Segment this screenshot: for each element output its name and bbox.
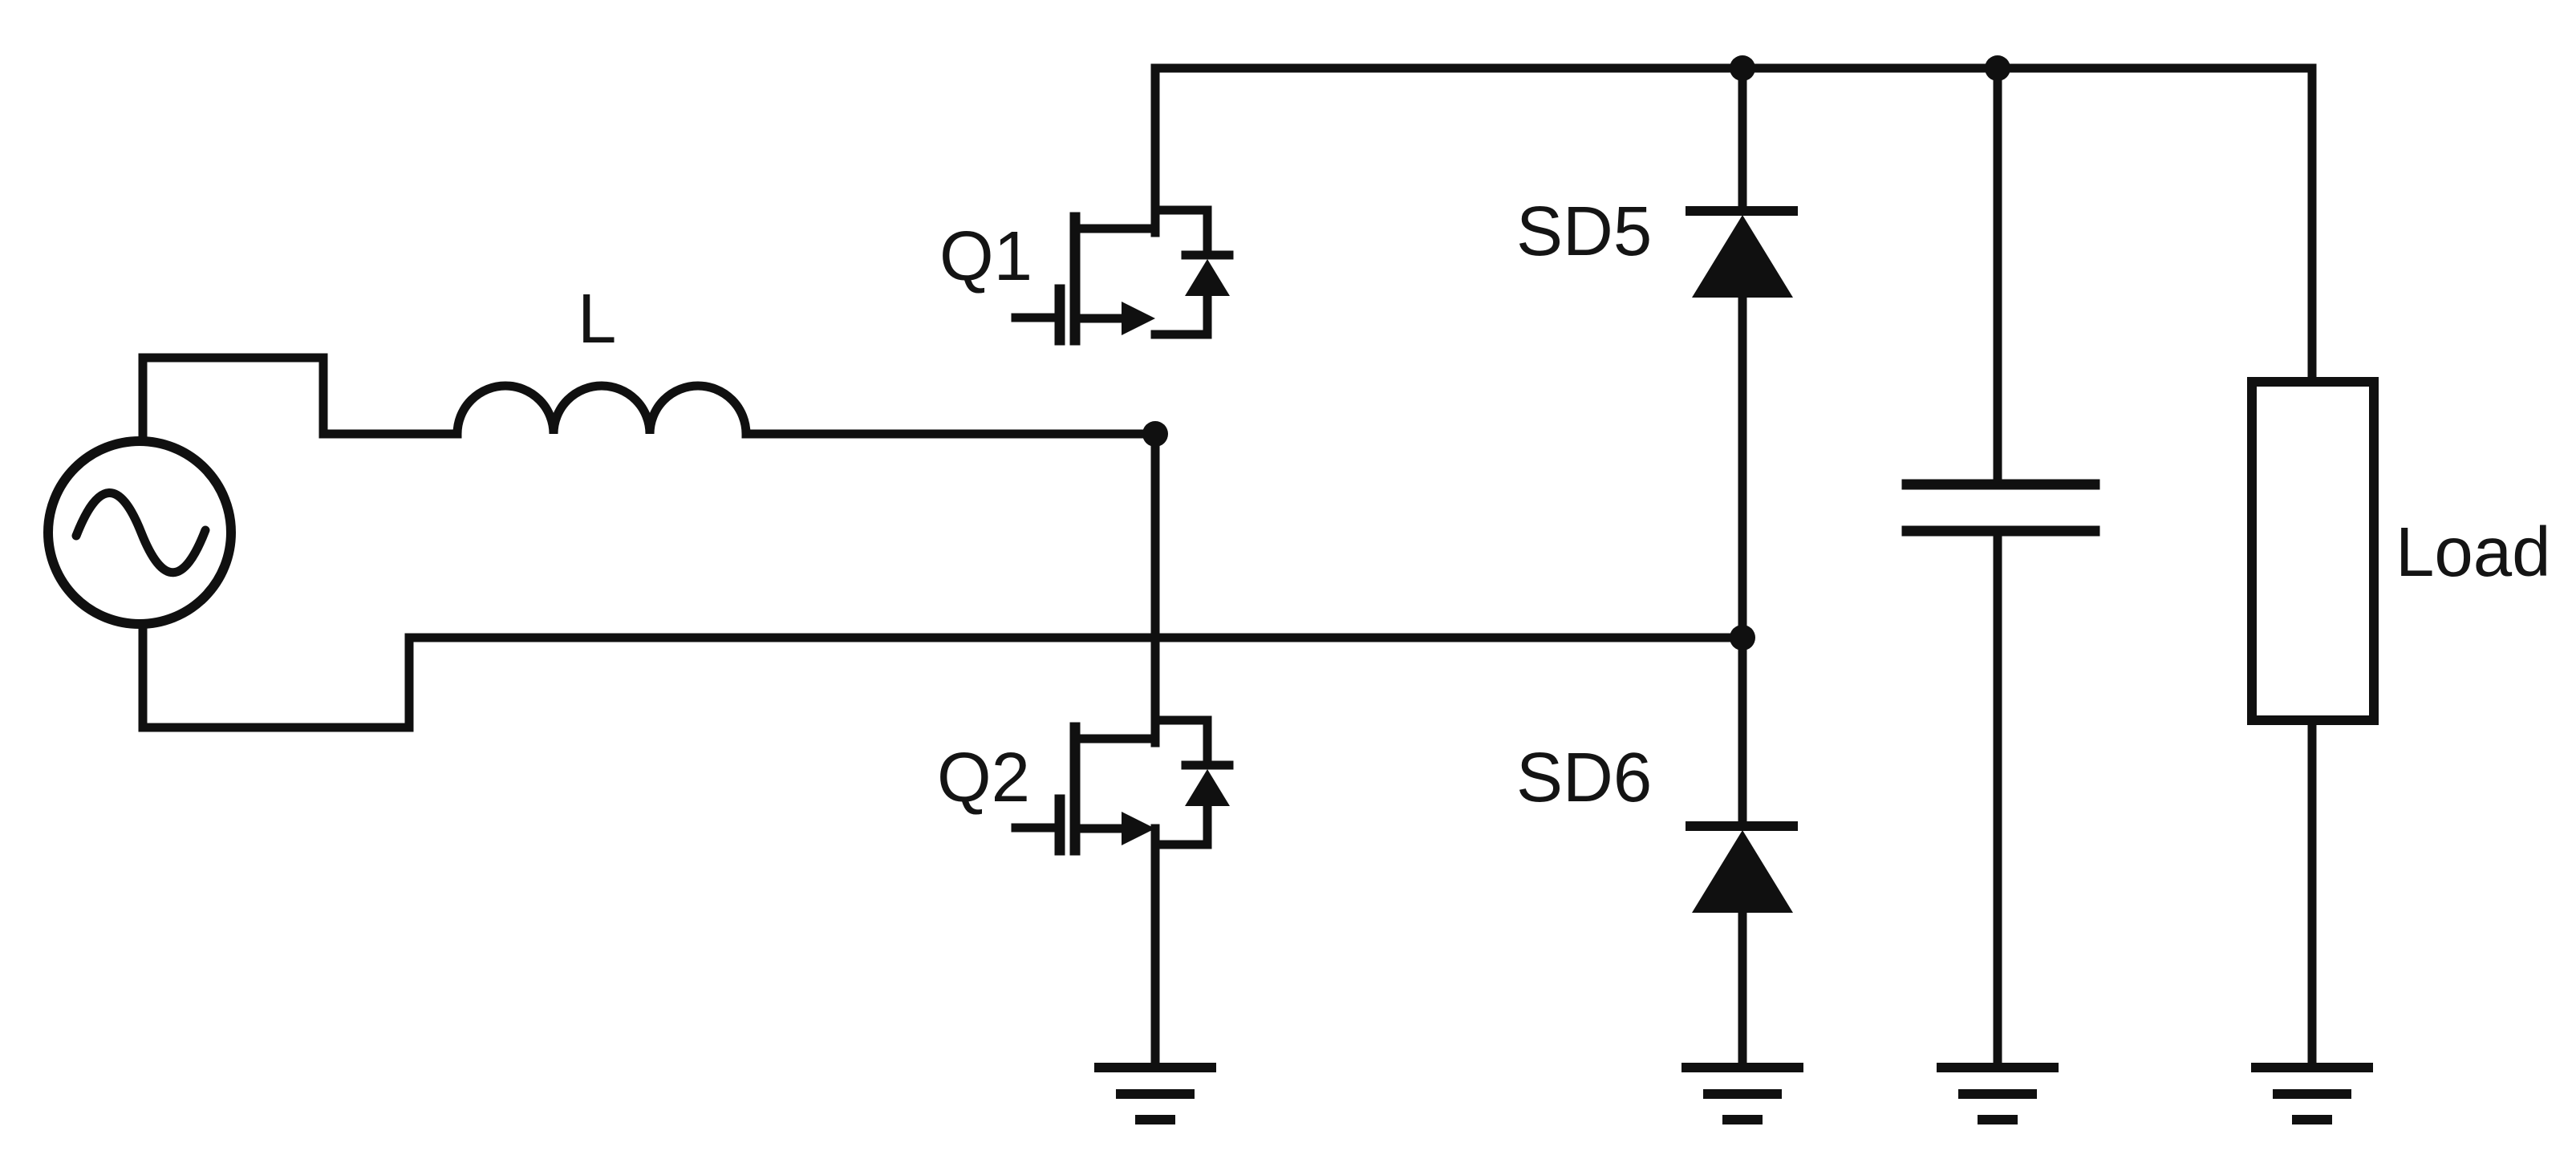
ground (SD6): [1686, 1068, 1799, 1120]
wire capacitor to ground: [1994, 531, 2002, 1068]
ground (load): [2256, 1068, 2368, 1120]
svg-text:SD5: SD5: [1516, 192, 1652, 270]
svg-text:Q1: Q1: [939, 217, 1032, 295]
wire top rail: [1155, 64, 2312, 73]
wire node B to SD6: [1738, 638, 1747, 826]
wire SD5 to node B: [1738, 295, 1747, 638]
transistor Q2: [1016, 720, 1230, 850]
diode SD5: [1690, 211, 1793, 298]
svg-text:Q2: Q2: [937, 739, 1030, 816]
wire top rail to SD5: [1738, 68, 1747, 211]
wire top rail to load: [2308, 68, 2317, 382]
node C junction (top rail to SD5 leg): [1730, 55, 1755, 81]
wire Q1 drain to top rail: [1151, 68, 1160, 233]
wire top rail to capacitor: [1994, 68, 2002, 484]
ground (capacitor): [1941, 1068, 2054, 1120]
resistor Load: [2252, 382, 2374, 720]
wire ac source top to inductor (step): [143, 358, 457, 439]
node B junction (return wire to SD5/SD6 midpoint): [1730, 625, 1755, 650]
inductor L: [457, 386, 746, 434]
wire load to ground: [2308, 720, 2317, 1068]
diode SD6: [1690, 826, 1793, 913]
transistor Q1: [1016, 210, 1230, 340]
svg-text:SD6: SD6: [1516, 739, 1652, 816]
wire Q1 source to Q2 drain: [1151, 434, 1160, 743]
wire ac source bottom to node B (step): [143, 626, 1742, 727]
ground (Q2 source): [1099, 1068, 1211, 1120]
wire inductor to node A: [746, 430, 1155, 439]
capacitor C: [1907, 484, 2095, 531]
node A junction (inductor to Q1/Q2 midpoint): [1142, 421, 1168, 447]
ac source V: [48, 441, 231, 624]
wire SD6 to ground: [1738, 910, 1747, 1068]
node D junction (top rail to capacitor leg): [1985, 55, 2010, 81]
svg-text:Load: Load: [2395, 513, 2551, 591]
svg-text:L: L: [578, 280, 616, 358]
wire Q2 source to ground: [1151, 829, 1160, 1068]
